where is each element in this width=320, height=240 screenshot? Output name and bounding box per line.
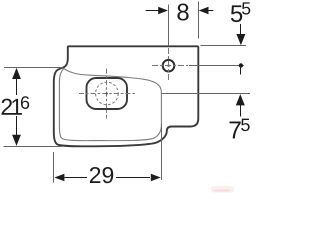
drain center dot xyxy=(106,93,108,95)
extension line bowl edge right xyxy=(162,93,251,95)
drain crosshair horizontal xyxy=(79,93,137,95)
dim text 5^5 xyxy=(231,5,242,22)
watermark smudge xyxy=(211,186,234,193)
extension line tap center right with dot xyxy=(189,65,244,67)
dim 21.6 down arrowhead xyxy=(12,135,21,146)
basin outer outline xyxy=(54,46,199,146)
extension line tap centerline up xyxy=(168,5,170,47)
dim 21.6 up arrowhead xyxy=(12,68,21,79)
tap crosshair horizontal dashed xyxy=(152,65,188,67)
tap hole circle xyxy=(163,60,175,72)
dim 5.5 down arrowhead xyxy=(236,34,245,45)
dim 8 right arrowhead xyxy=(199,7,209,15)
dim 7.5 tail line xyxy=(240,104,242,117)
extension line 29 right / bowl edge down xyxy=(161,124,163,180)
dim 8 left tail line xyxy=(146,10,161,12)
dim 8 left arrowhead xyxy=(158,7,168,15)
dim text 29 xyxy=(90,167,113,183)
bowl opening inner outline xyxy=(59,69,161,141)
dim text 7^5 xyxy=(230,122,241,139)
dim 29 line right segment xyxy=(116,177,150,179)
drain dashed circle xyxy=(96,82,119,105)
dim 29 line left segment xyxy=(65,177,88,179)
dim 7.5 up arrowhead xyxy=(236,94,245,105)
extension line right edge up xyxy=(198,2,200,39)
extension line 29 left xyxy=(53,152,55,183)
drain crosshair vertical xyxy=(106,69,108,119)
dim 29 left arrowhead xyxy=(54,174,64,182)
dim text 21^6 xyxy=(2,99,12,115)
tap hole center dot xyxy=(167,65,169,67)
dim 7.5 stub below dot xyxy=(240,66,242,75)
dim 21.6 lower line xyxy=(16,116,18,135)
tap crosshair vertical dashed below shelf edge xyxy=(168,48,170,80)
dim 21.6 upper line xyxy=(16,79,18,96)
dim 29 right arrowhead xyxy=(151,174,161,182)
extension line 21.6 top xyxy=(4,67,63,69)
extension line shelf top right xyxy=(201,45,247,47)
drain cover rounded square xyxy=(87,78,128,109)
dim 7.5 dot terminator xyxy=(239,63,243,67)
extension line 21.6 bottom xyxy=(4,146,63,148)
dim 8 right tail line xyxy=(206,10,214,12)
dim 5.5 vertical line xyxy=(240,24,242,35)
dim text 8 xyxy=(177,4,188,21)
